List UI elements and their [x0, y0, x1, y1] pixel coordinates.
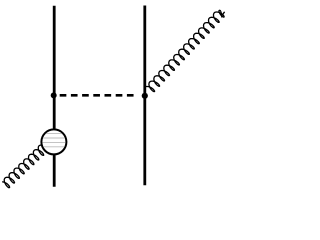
- wire: gluon to bottom left: [2, 140, 50, 187]
- wire: right fermion line: [143, 6, 146, 186]
- node: right vertex dot: [142, 93, 148, 99]
- wire: hatch line 4: [40, 146, 68, 148]
- wire: hatch line 2: [40, 137, 68, 139]
- node: blob (hatched circle): [41, 129, 66, 154]
- wire: dashed propagator: [60, 94, 134, 97]
- node: left vertex dot: [51, 92, 57, 98]
- wire: gluon to top right: [145, 12, 225, 94]
- wire: hatch line 1: [40, 133, 68, 135]
- wire: hatch line 3: [40, 141, 68, 143]
- wire: gluon end tip: [219, 10, 225, 16]
- wire: left fermion line: [53, 6, 56, 187]
